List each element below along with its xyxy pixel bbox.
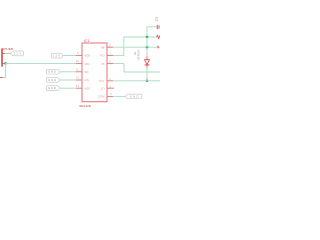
pin HIN stub <box>76 63 82 65</box>
svg-text:IR2110D: IR2110D <box>79 104 92 108</box>
svg-text:GND: GND <box>48 70 57 74</box>
wire VB to right edge <box>113 46 160 48</box>
flag GND VSS right <box>46 86 60 91</box>
svg-text:LIN: LIN <box>85 78 89 82</box>
node dot VB/vertical <box>146 46 149 49</box>
wire flag to VSS <box>60 87 76 89</box>
pin COM stub <box>107 95 113 97</box>
pin LO stub <box>107 87 114 89</box>
wire pin1 to flag <box>5 53 11 55</box>
wire VS down and right <box>113 64 160 72</box>
capacitor C right edge top <box>156 25 158 29</box>
svg-text:SD: SD <box>85 70 89 74</box>
flag GND LIN right <box>46 78 60 83</box>
connector JP1 body <box>1 48 3 66</box>
pin VS stub <box>107 63 113 65</box>
svg-text:GND: GND <box>48 78 57 82</box>
svg-text:COM: COM <box>98 95 105 99</box>
svg-text:GND: GND <box>130 95 140 99</box>
stub to left edge <box>0 77 3 79</box>
wire HO up and across <box>113 37 157 55</box>
wire branch up to top comp <box>147 27 157 37</box>
svg-text:GND: GND <box>48 86 57 90</box>
svg-text:IC1: IC1 <box>84 39 90 43</box>
pin SD stub <box>76 71 82 73</box>
flag GND SD right <box>46 69 60 74</box>
flag 12V left <box>10 51 23 56</box>
node junction at connector pin2 <box>4 62 7 65</box>
svg-text:HIN: HIN <box>85 62 90 66</box>
svg-text:VB: VB <box>101 45 105 49</box>
flag VDD right <box>51 53 63 58</box>
pin HO stub <box>107 54 113 56</box>
connector JP1 pin 1 stub <box>2 53 5 55</box>
svg-text:12V: 12V <box>14 52 22 56</box>
wire flag to VDD <box>63 55 76 57</box>
svg-text:VDD: VDD <box>85 54 91 58</box>
wire flag to SD <box>60 71 76 73</box>
op-amp U1 body IC1 <box>82 43 107 102</box>
wire down from junction <box>3 63 6 77</box>
node dot on VCC <box>146 80 149 83</box>
flag GND COM left <box>125 94 142 99</box>
svg-text:VCC: VCC <box>99 79 105 83</box>
svg-text:VS: VS <box>101 62 105 66</box>
svg-text:VSS: VSS <box>85 86 91 90</box>
wire diode to VCC line <box>146 68 148 81</box>
svg-text:UPLIER: UPLIER <box>2 47 14 51</box>
svg-text:12V: 12V <box>53 54 61 58</box>
pin VB stub <box>107 46 113 48</box>
wire flag to LIN <box>60 79 76 81</box>
pin LIN stub <box>76 79 82 81</box>
pin VCC stub <box>107 80 113 82</box>
svg-text:UF4007: UF4007 <box>137 49 141 60</box>
component stub right edge VB <box>158 46 159 49</box>
pin VDD stub <box>76 54 82 56</box>
wire vertical through diode <box>146 37 148 56</box>
connector JP1 pin 2 stub <box>2 62 5 64</box>
pin VSS stub <box>76 87 82 89</box>
node dot HO/branch <box>146 36 149 39</box>
diode D1 <box>146 56 148 59</box>
svg-text:C5: C5 <box>155 17 159 21</box>
wire VCC to right edge <box>113 80 160 82</box>
wire COM to flag <box>113 95 125 97</box>
resistor fragment right edge mid <box>157 35 160 38</box>
wire HIN long <box>6 62 77 64</box>
